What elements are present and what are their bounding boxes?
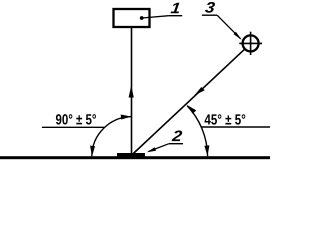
leader to detector 3 [217, 15, 240, 39]
detector crosshair symbol 3 [243, 35, 259, 51]
leader line under 90 label [42, 126, 104, 128]
wire vertical line [131, 27, 133, 154]
arrow down-left on diagonal line [195, 87, 205, 95]
specimen block 2 [117, 153, 145, 158]
arrowhead arc45 top [186, 105, 196, 114]
lamp box 1 [114, 9, 150, 27]
leader line under 45 label [202, 126, 271, 128]
arrowhead arc90 top [121, 115, 132, 120]
leader to specimen 2 [149, 144, 169, 152]
label 3 [205, 2, 215, 13]
label 90 degrees [56, 114, 96, 124]
label 2 [172, 130, 183, 141]
arc 45 degrees [187, 106, 207, 156]
wire diagonal line to detector [132, 49, 244, 154]
label 45 degrees [205, 114, 246, 124]
label 1 [170, 3, 179, 14]
arrowhead arc45 bottom [204, 145, 209, 156]
arrowhead arc90 bottom [90, 146, 95, 157]
leader to box 1 [142, 16, 169, 18]
arc 90 degrees [92, 117, 132, 157]
baseline ground [0, 156, 270, 159]
arrow up on vertical line [129, 86, 134, 98]
